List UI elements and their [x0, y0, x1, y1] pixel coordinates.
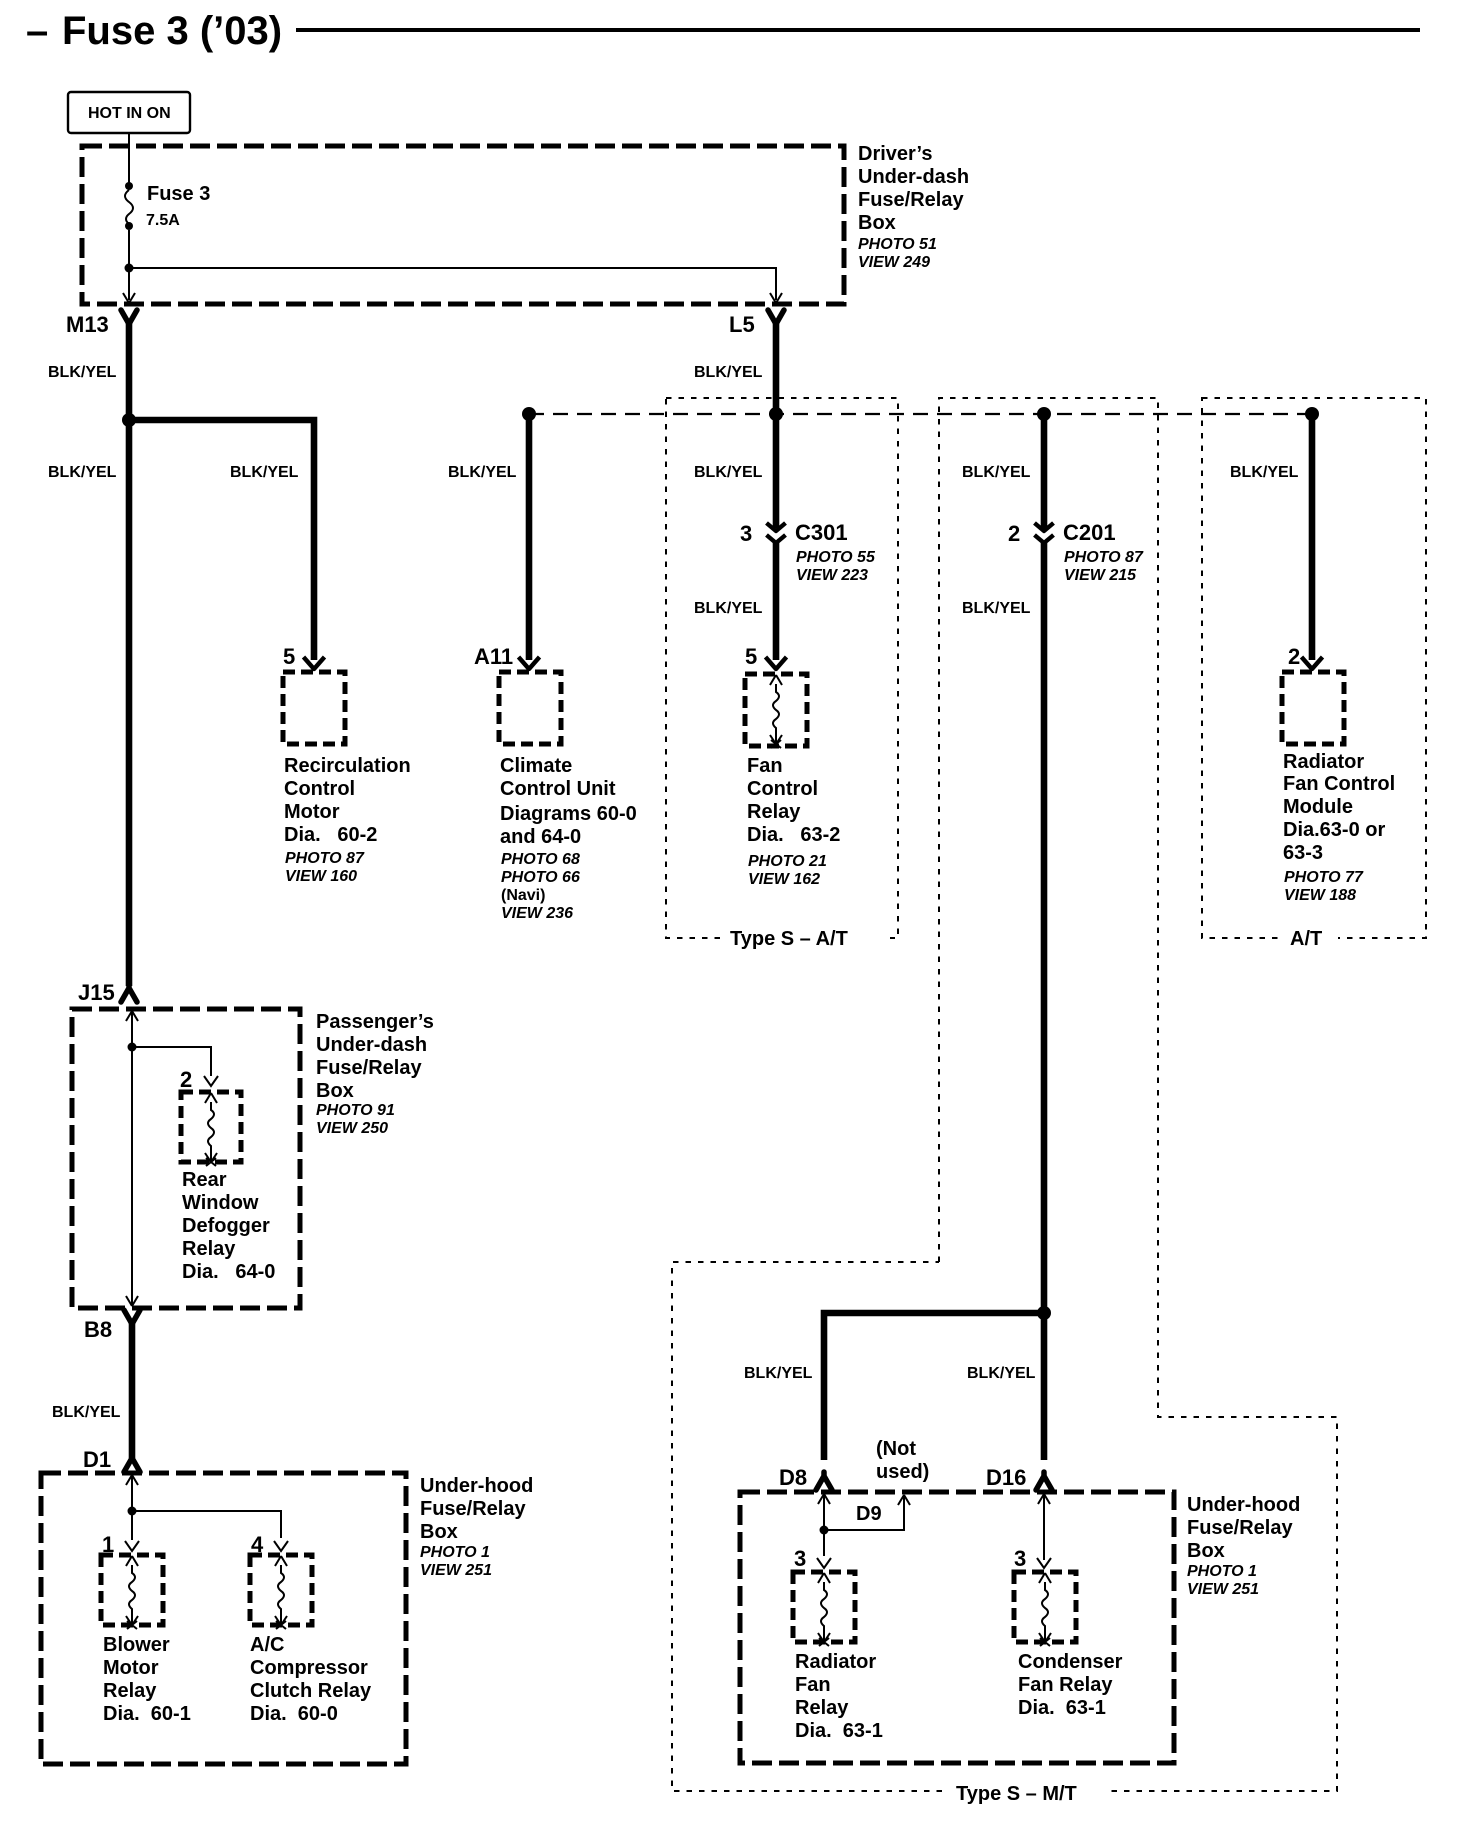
label under-hood box left — [420, 1475, 533, 1579]
svg-text:M13: M13 — [66, 312, 109, 337]
svg-text:A/C: A/C — [250, 1634, 284, 1656]
svg-text:(Navi): (Navi) — [501, 887, 545, 904]
svg-text:B8: B8 — [84, 1317, 112, 1342]
svg-text:–: – — [26, 9, 48, 53]
wire D1 into box — [126, 1475, 138, 1540]
label BLK/YEL left rail — [48, 464, 117, 481]
svg-text:BLK/YEL: BLK/YEL — [744, 1365, 813, 1382]
svg-text:Recirculation: Recirculation — [284, 755, 411, 777]
wire B8 to D1 — [129, 1322, 136, 1458]
pin A11 climate — [474, 644, 540, 669]
svg-text:Under-dash: Under-dash — [858, 166, 969, 188]
junction dot passenger's box — [128, 1043, 137, 1052]
svg-text:Dia.63-0 or: Dia.63-0 or — [1283, 819, 1385, 841]
svg-text:63-3: 63-3 — [1283, 842, 1323, 864]
svg-text:and 64-0: and 64-0 — [500, 826, 581, 848]
svg-text:Fuse/Relay: Fuse/Relay — [316, 1057, 422, 1079]
svg-text:VIEW 223: VIEW 223 — [796, 567, 868, 584]
svg-text:Climate: Climate — [500, 755, 572, 777]
svg-text:Motor: Motor — [284, 801, 340, 823]
svg-text:Radiator: Radiator — [795, 1651, 876, 1673]
label condenser fan relay — [1018, 1651, 1123, 1719]
condenser fan relay — [1014, 1572, 1076, 1646]
svg-text:Passenger’s: Passenger’s — [316, 1011, 434, 1033]
label BLK/YEL D8 — [744, 1365, 813, 1382]
junction dot A/T branch — [1305, 407, 1319, 421]
svg-text:PHOTO 51: PHOTO 51 — [858, 236, 937, 253]
svg-text:Relay: Relay — [103, 1680, 157, 1702]
svg-text:Relay: Relay — [795, 1697, 849, 1719]
under-hood fuse/relay box right — [740, 1492, 1174, 1763]
svg-text:Compressor: Compressor — [250, 1657, 368, 1679]
node L5 — [729, 310, 784, 337]
fuse F3 7.5A — [125, 182, 210, 230]
node D1 — [83, 1447, 140, 1472]
svg-text:Fan: Fan — [795, 1674, 831, 1696]
Type S M/T option region — [672, 398, 1337, 1805]
svg-text:Relay: Relay — [747, 801, 801, 823]
junction dot L5/bus — [769, 407, 783, 421]
svg-text:BLK/YEL: BLK/YEL — [694, 464, 763, 481]
label BLK/YEL M13 — [48, 364, 117, 381]
svg-text:PHOTO 77: PHOTO 77 — [1284, 869, 1364, 886]
svg-text:Dia. 63-1: Dia. 63-1 — [1018, 1697, 1106, 1719]
svg-text:Window: Window — [182, 1192, 259, 1214]
svg-text:2: 2 — [1288, 644, 1300, 669]
svg-text:(Not: (Not — [876, 1438, 916, 1460]
svg-text:BLK/YEL: BLK/YEL — [48, 364, 117, 381]
label not used — [876, 1438, 929, 1483]
a/c compressor clutch relay — [250, 1555, 312, 1629]
svg-text:D9: D9 — [856, 1503, 882, 1525]
fan control relay — [745, 674, 807, 748]
radiator fan relay — [793, 1572, 855, 1646]
svg-text:VIEW 188: VIEW 188 — [1284, 887, 1356, 904]
arrow M13 exit — [123, 293, 135, 303]
wire C201 long drop — [1041, 543, 1048, 1313]
title Fuse 3 ('03) — [26, 9, 1420, 53]
svg-text:BLK/YEL: BLK/YEL — [1230, 464, 1299, 481]
svg-text:3: 3 — [740, 521, 752, 546]
svg-text:PHOTO 21: PHOTO 21 — [748, 853, 827, 870]
junction dot C201 branch — [1037, 407, 1051, 421]
wire branch to D8 — [824, 1313, 1044, 1460]
label rear window defogger relay — [182, 1169, 275, 1283]
svg-text:BLK/YEL: BLK/YEL — [230, 464, 299, 481]
label driver's box — [858, 143, 969, 271]
pin 3 radiator fan relay — [794, 1546, 831, 1571]
svg-text:Fan Control: Fan Control — [1283, 773, 1395, 795]
dashed bus wire — [529, 413, 1312, 415]
pin 2 defogger relay — [180, 1067, 218, 1092]
svg-text:C201: C201 — [1063, 520, 1116, 545]
svg-text:Fuse 3: Fuse 3 — [147, 183, 210, 205]
svg-text:BLK/YEL: BLK/YEL — [694, 364, 763, 381]
label under-hood box right — [1187, 1494, 1300, 1598]
svg-text:A11: A11 — [474, 644, 513, 669]
svg-text:VIEW 215: VIEW 215 — [1064, 567, 1137, 584]
svg-text:D8: D8 — [779, 1465, 807, 1490]
wire D8 into box — [818, 1494, 830, 1556]
svg-text:VIEW 160: VIEW 160 — [285, 868, 357, 885]
svg-text:PHOTO 87: PHOTO 87 — [285, 850, 365, 867]
junction dot under-hood left — [128, 1507, 137, 1516]
svg-text:Fan: Fan — [747, 755, 783, 777]
svg-text:Motor: Motor — [103, 1657, 159, 1679]
label BLK/YEL L5 — [694, 364, 763, 381]
svg-text:J15: J15 — [78, 980, 115, 1005]
wire A/T drop — [1309, 414, 1316, 660]
svg-text:HOT IN ON: HOT IN ON — [88, 105, 171, 122]
svg-text:3: 3 — [1014, 1546, 1026, 1571]
svg-text:BLK/YEL: BLK/YEL — [962, 464, 1031, 481]
wire through passenger's box — [126, 1010, 138, 1306]
wire stub to D9 (not used) — [824, 1495, 910, 1530]
svg-text:3: 3 — [794, 1546, 806, 1571]
svg-text:5: 5 — [745, 644, 757, 669]
svg-text:VIEW 249: VIEW 249 — [858, 254, 930, 271]
svg-text:Driver’s: Driver’s — [858, 143, 933, 165]
node D8 — [779, 1465, 832, 1490]
blower motor relay — [101, 1555, 163, 1629]
svg-text:Dia. 60-2: Dia. 60-2 — [284, 824, 377, 846]
svg-text:Clutch Relay: Clutch Relay — [250, 1680, 372, 1702]
A/T option box — [1202, 398, 1426, 950]
svg-text:Dia. 60-0: Dia. 60-0 — [250, 1703, 338, 1725]
svg-text:D16: D16 — [986, 1465, 1026, 1490]
svg-text:Box: Box — [1187, 1540, 1225, 1562]
rear window defogger relay — [181, 1092, 241, 1166]
svg-text:PHOTO 55: PHOTO 55 — [796, 549, 876, 566]
node M13 — [66, 310, 137, 337]
label BLK/YEL below C201 — [962, 600, 1031, 617]
label BLK/YEL fan relay — [694, 464, 763, 481]
svg-text:Defogger: Defogger — [182, 1215, 270, 1237]
svg-text:Radiator: Radiator — [1283, 751, 1364, 773]
wire branch to recirculation motor — [129, 420, 314, 660]
svg-text:Fuse/Relay: Fuse/Relay — [1187, 1517, 1293, 1539]
svg-text:Fan Relay: Fan Relay — [1018, 1674, 1113, 1696]
radiator fan control module — [1282, 672, 1344, 744]
recirculation control motor — [283, 672, 345, 744]
svg-text:Fuse/Relay: Fuse/Relay — [420, 1498, 526, 1520]
svg-text:Control: Control — [747, 778, 818, 800]
svg-text:Box: Box — [858, 212, 896, 234]
driver's under-dash fuse/relay box — [82, 146, 844, 304]
pin 5 recirculation — [283, 644, 325, 669]
label climate control unit — [500, 755, 637, 922]
label radiator fan control module — [1283, 751, 1395, 904]
junction dot inside driver's box — [125, 264, 134, 273]
wire fuse to M13 exit — [128, 230, 130, 300]
svg-text:Under-hood: Under-hood — [1187, 1494, 1300, 1516]
svg-text:2: 2 — [1008, 521, 1020, 546]
wire to D16 — [1041, 1313, 1048, 1460]
svg-text:Under-dash: Under-dash — [316, 1034, 427, 1056]
node B8 — [84, 1310, 140, 1342]
svg-text:Condenser: Condenser — [1018, 1651, 1123, 1673]
climate control unit — [499, 672, 561, 744]
svg-text:5: 5 — [283, 644, 295, 669]
wire D16 into box — [1038, 1494, 1050, 1560]
node D9 — [856, 1503, 882, 1525]
label radiator fan relay — [795, 1651, 883, 1742]
pin 3 condenser fan relay — [1014, 1546, 1051, 1571]
svg-text:Box: Box — [420, 1521, 458, 1543]
label BLK/YEL A/T — [1230, 464, 1299, 481]
node J15 — [78, 980, 137, 1005]
node D16 — [986, 1465, 1052, 1490]
wire L5 drop — [773, 322, 780, 528]
under-hood fuse/relay box left — [41, 1473, 406, 1764]
svg-text:VIEW 162: VIEW 162 — [748, 871, 820, 888]
svg-text:Control Unit: Control Unit — [500, 778, 616, 800]
svg-text:L5: L5 — [729, 312, 755, 337]
connector C201 pin 2 — [1008, 520, 1144, 584]
label recirculation control motor — [284, 755, 411, 885]
svg-text:VIEW 236: VIEW 236 — [501, 905, 573, 922]
svg-text:Relay: Relay — [182, 1238, 236, 1260]
wire C201 drop — [1041, 414, 1048, 529]
svg-text:Blower: Blower — [103, 1634, 170, 1656]
passenger's under-dash fuse/relay box — [72, 1009, 300, 1308]
svg-text:BLK/YEL: BLK/YEL — [448, 464, 517, 481]
svg-text:PHOTO 87: PHOTO 87 — [1064, 549, 1144, 566]
junction dot bottom right rail — [1037, 1306, 1051, 1320]
arrow L5 exit — [770, 293, 782, 303]
wire branch to defogger relay — [132, 1047, 211, 1076]
connector C301 pin 3 — [740, 520, 876, 584]
svg-text:VIEW 251: VIEW 251 — [420, 1562, 492, 1579]
wire from HOT IN ON to fuse — [128, 133, 130, 185]
wire to L5 exit — [129, 268, 776, 300]
svg-text:Box: Box — [316, 1080, 354, 1102]
label BLK/YEL B8-D1 — [52, 1404, 121, 1421]
svg-text:used): used) — [876, 1461, 929, 1483]
svg-text:2: 2 — [180, 1067, 192, 1092]
pin 2 radiator fan control module — [1288, 644, 1323, 669]
svg-text:BLK/YEL: BLK/YEL — [694, 600, 763, 617]
svg-text:Fuse 3 (’03): Fuse 3 (’03) — [62, 9, 282, 53]
pin 5 fan control relay — [745, 644, 787, 669]
svg-text:Module: Module — [1283, 796, 1353, 818]
svg-text:BLK/YEL: BLK/YEL — [48, 464, 117, 481]
node HOT IN ON — [68, 92, 190, 133]
wire M13 rail (BLK/YEL) — [126, 322, 133, 986]
label BLK/YEL below C301 — [694, 600, 763, 617]
svg-text:Control: Control — [284, 778, 355, 800]
junction dot left rail — [122, 413, 136, 427]
svg-text:Rear: Rear — [182, 1169, 227, 1191]
label BLK/YEL D16 — [967, 1365, 1036, 1382]
svg-text:Dia. 63-1: Dia. 63-1 — [795, 1720, 883, 1742]
svg-text:7.5A: 7.5A — [146, 212, 180, 229]
svg-text:PHOTO 66: PHOTO 66 — [501, 869, 580, 886]
wire branch to A/C relay — [132, 1511, 281, 1538]
label BLK/YEL C201 — [962, 464, 1031, 481]
junction dot D8/D9 — [820, 1526, 829, 1535]
junction dot climate — [522, 407, 536, 421]
svg-text:PHOTO 1: PHOTO 1 — [420, 1544, 490, 1561]
label BLK/YEL recirc branch — [230, 464, 299, 481]
Type S A/T option box — [666, 398, 898, 950]
svg-text:PHOTO 68: PHOTO 68 — [501, 851, 580, 868]
svg-text:Fuse/Relay: Fuse/Relay — [858, 189, 964, 211]
wire C301 to fan control relay — [773, 543, 780, 660]
svg-text:C301: C301 — [795, 520, 848, 545]
svg-text:VIEW 251: VIEW 251 — [1187, 1581, 1259, 1598]
label BLK/YEL climate — [448, 464, 517, 481]
svg-text:Diagrams 60-0: Diagrams 60-0 — [500, 803, 637, 825]
svg-text:VIEW 250: VIEW 250 — [316, 1120, 388, 1137]
svg-text:Dia. 64-0: Dia. 64-0 — [182, 1261, 275, 1283]
svg-text:PHOTO 1: PHOTO 1 — [1187, 1563, 1257, 1580]
svg-text:PHOTO 91: PHOTO 91 — [316, 1102, 395, 1119]
svg-text:A/T: A/T — [1290, 928, 1322, 950]
svg-text:Type S – M/T: Type S – M/T — [956, 1783, 1077, 1805]
label blower motor relay — [103, 1634, 191, 1725]
pin 1 blower relay — [102, 1532, 139, 1557]
svg-text:BLK/YEL: BLK/YEL — [967, 1365, 1036, 1382]
svg-text:Dia. 63-2: Dia. 63-2 — [747, 824, 840, 846]
svg-text:D1: D1 — [83, 1447, 111, 1472]
pin 4 A/C relay — [251, 1532, 288, 1557]
label fan control relay — [747, 755, 840, 888]
svg-text:Under-hood: Under-hood — [420, 1475, 533, 1497]
svg-text:BLK/YEL: BLK/YEL — [962, 600, 1031, 617]
label a/c compressor clutch relay — [250, 1634, 372, 1725]
svg-text:Dia. 60-1: Dia. 60-1 — [103, 1703, 191, 1725]
svg-text:Type S – A/T: Type S – A/T — [730, 928, 848, 950]
svg-text:BLK/YEL: BLK/YEL — [52, 1404, 121, 1421]
wire climate drop — [526, 414, 533, 660]
label passenger's box — [316, 1011, 434, 1137]
